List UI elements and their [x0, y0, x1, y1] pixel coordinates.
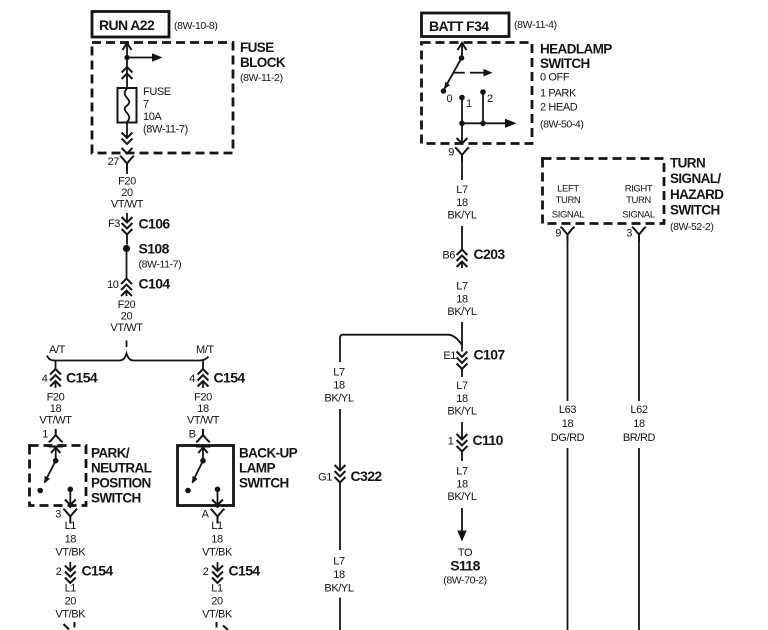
svg-text:L7: L7: [456, 281, 468, 293]
connector C154 pin 4 (A/T): [42, 369, 98, 388]
svg-text:18: 18: [456, 197, 468, 209]
fuse block dashed enclosure: [92, 43, 233, 154]
wire below C322: [339, 483, 341, 551]
svg-text:C203: C203: [474, 246, 506, 262]
svg-text:SWITCH: SWITCH: [540, 56, 590, 71]
svg-text:RUN A22: RUN A22: [99, 17, 155, 33]
svg-text:TURN: TURN: [626, 195, 651, 206]
wire label F20 20 VT/WT: [111, 171, 144, 211]
wire fuse to pin 27 with chevrons: [122, 123, 133, 154]
wire C106 to S108: [126, 235, 128, 245]
svg-text:L1: L1: [211, 520, 223, 532]
svg-text:2: 2: [56, 566, 62, 578]
svg-text:1: 1: [448, 436, 454, 448]
svg-text:9: 9: [555, 228, 561, 240]
svg-text:18: 18: [333, 569, 345, 581]
pin A: [202, 509, 225, 524]
svg-text:(8W-11-7): (8W-11-7): [139, 259, 182, 271]
svg-text:BK/YL: BK/YL: [447, 306, 476, 318]
wire RUN A22 to fuse (up arrow): [123, 43, 132, 88]
svg-text:BK/YL: BK/YL: [447, 491, 476, 503]
pin 27: [108, 156, 134, 171]
reference (8W-11-4): [514, 19, 557, 31]
wire label L7 18 BK/YL (below C110): [447, 452, 476, 504]
headlamp switch title: [540, 42, 612, 131]
svg-text:4: 4: [189, 373, 195, 385]
svg-text:10: 10: [107, 279, 119, 291]
svg-text:BK/YL: BK/YL: [324, 583, 353, 595]
wire label L1 20 VT/BK (M/T): [202, 583, 233, 621]
connector C104 pin 10: [107, 276, 170, 297]
svg-text:C154: C154: [66, 370, 98, 386]
connector C203 pin B6: [442, 226, 505, 268]
connector chevrons above fuse: [122, 67, 133, 79]
wire branch arrow right in fuse block: [127, 53, 163, 62]
headlamp contact 2: [480, 89, 493, 105]
pin 3 right turn signal: [626, 227, 646, 242]
node A/T: [49, 344, 66, 356]
node BATT F34 feed box: [422, 13, 510, 37]
svg-text:RIGHT: RIGHT: [625, 184, 653, 195]
svg-text:L7: L7: [333, 556, 345, 568]
svg-text:F20: F20: [118, 299, 136, 311]
junction dot in fuse block: [124, 55, 129, 60]
svg-text:4: 4: [42, 373, 48, 385]
svg-text:0 OFF: 0 OFF: [540, 72, 570, 84]
wire label L7 18 BK/YL (below C107): [447, 369, 476, 418]
pin 9: [448, 147, 469, 163]
wire label L1 20 VT/BK (A/T): [55, 583, 86, 621]
svg-text:L7: L7: [456, 380, 468, 392]
svg-text:L63: L63: [559, 404, 576, 416]
turn signal / hazard switch dashed box: [543, 159, 665, 224]
headlamp output wires: [459, 92, 486, 126]
svg-text:S118: S118: [450, 558, 480, 574]
svg-text:VT/WT: VT/WT: [111, 199, 144, 211]
wire left turn signal to page bottom: [567, 448, 569, 630]
svg-text:VT/BK: VT/BK: [55, 609, 86, 621]
svg-text:18: 18: [211, 534, 223, 546]
wire label L1 18 VT/BK (M/T): [202, 520, 233, 559]
svg-text:B: B: [189, 429, 196, 441]
svg-text:TURN: TURN: [556, 195, 581, 206]
wire label L7 18 BK/YL (switch output): [447, 162, 476, 222]
park/neutral switch title: [91, 446, 152, 506]
pin B back-up lamp switch: [189, 429, 210, 443]
svg-text:20: 20: [211, 596, 223, 608]
svg-text:LEFT: LEFT: [557, 184, 579, 195]
splice S108: [123, 241, 181, 271]
wire arrow to S118: [457, 508, 466, 542]
fuse F7 10A: [118, 88, 137, 123]
svg-text:G1: G1: [318, 472, 332, 484]
wire label L7 18 BK/YL (below C322): [324, 556, 353, 595]
svg-text:VT/BK: VT/BK: [55, 547, 86, 559]
svg-text:F3: F3: [108, 218, 120, 230]
svg-text:C104: C104: [139, 276, 171, 292]
svg-text:27: 27: [108, 156, 120, 168]
continuation symbol bottom (A/T): [64, 622, 75, 630]
svg-text:18: 18: [50, 403, 62, 415]
svg-text:L1: L1: [65, 520, 77, 532]
headlamp switch wiper arm: [444, 43, 467, 89]
wire right turn signal to page bottom: [638, 448, 640, 630]
wire to C107 with branch: [340, 322, 462, 362]
svg-text:VT/BK: VT/BK: [202, 609, 233, 621]
svg-text:VT/WT: VT/WT: [187, 415, 220, 427]
svg-text:C154: C154: [82, 563, 114, 579]
wire to page bottom (C322 branch): [339, 598, 341, 630]
park/neutral switch internals: [37, 447, 75, 509]
svg-text:1: 1: [466, 98, 472, 110]
svg-text:20: 20: [121, 311, 133, 323]
svg-text:M/T: M/T: [196, 344, 214, 356]
wire label F20 20 VT/WT: [110, 299, 143, 334]
svg-text:FUSE: FUSE: [143, 86, 171, 98]
svg-text:TURN: TURN: [670, 156, 705, 171]
svg-text:BLOCK: BLOCK: [240, 55, 286, 70]
svg-text:20: 20: [121, 187, 133, 199]
svg-text:SWITCH: SWITCH: [91, 491, 141, 506]
svg-text:C154: C154: [229, 563, 261, 579]
pin 1 park/neutral switch: [42, 429, 62, 443]
pin 9 left turn signal: [555, 227, 574, 242]
svg-text:C107: C107: [474, 347, 506, 363]
svg-text:HAZARD: HAZARD: [670, 187, 724, 202]
svg-text:VT/WT: VT/WT: [110, 322, 143, 334]
svg-text:(8W-70-2): (8W-70-2): [443, 575, 486, 587]
connector C107 pin E1: [443, 347, 505, 370]
connector C154 pin 4 (M/T): [189, 369, 245, 388]
headlamp output arrow right: [483, 119, 517, 128]
svg-text:(8W-52-2): (8W-52-2): [670, 221, 713, 233]
park/neutral position switch dashed box: [30, 446, 87, 506]
svg-text:VT/BK: VT/BK: [202, 547, 233, 559]
svg-text:SIGNAL/: SIGNAL/: [670, 171, 721, 186]
svg-text:C154: C154: [214, 370, 246, 386]
wire label F20 18 VT/WT (A/T): [39, 392, 72, 427]
node TO S118: [443, 547, 486, 587]
headlamp switch rotate arrow: [470, 69, 493, 77]
svg-text:F20: F20: [47, 392, 65, 404]
fuse value label: [143, 86, 188, 136]
svg-text:L7: L7: [333, 367, 345, 379]
svg-text:SIGNAL: SIGNAL: [552, 210, 585, 221]
svg-text:9: 9: [448, 147, 454, 159]
pin 3: [55, 509, 77, 524]
wire left branch to C322: [339, 409, 341, 471]
svg-text:C322: C322: [351, 468, 383, 484]
svg-text:18: 18: [333, 380, 345, 392]
svg-text:2: 2: [203, 566, 209, 578]
svg-text:LAMP: LAMP: [239, 461, 275, 476]
svg-text:POSITION: POSITION: [91, 476, 151, 491]
svg-text:1: 1: [42, 429, 48, 441]
svg-text:(8W-11-7): (8W-11-7): [143, 124, 188, 136]
svg-text:S108: S108: [139, 241, 170, 257]
svg-text:18: 18: [456, 479, 468, 491]
svg-text:(8W-11-4): (8W-11-4): [514, 19, 557, 31]
svg-text:18: 18: [456, 294, 468, 306]
svg-text:B6: B6: [442, 250, 455, 262]
svg-text:L1: L1: [211, 583, 223, 595]
svg-text:C110: C110: [473, 432, 504, 448]
svg-text:20: 20: [65, 596, 77, 608]
wire label L62 18 BR/RD: [623, 404, 656, 444]
back-up lamp switch box: [178, 446, 234, 506]
turn signal / hazard switch title: [670, 156, 724, 234]
wire label L63 18 DG/RD: [551, 404, 585, 444]
svg-text:C106: C106: [139, 216, 171, 232]
wire label L7 18 BK/YL: [447, 281, 476, 319]
wire headlamp to pin 9: [457, 123, 468, 143]
svg-text:3: 3: [55, 509, 61, 521]
svg-text:A: A: [202, 509, 210, 521]
svg-text:DG/RD: DG/RD: [551, 432, 585, 444]
svg-text:10A: 10A: [143, 111, 162, 123]
svg-text:18: 18: [633, 418, 645, 430]
svg-text:HEADLAMP: HEADLAMP: [540, 42, 612, 57]
back-up lamp switch title: [239, 446, 298, 491]
svg-text:7: 7: [143, 99, 149, 111]
svg-text:0: 0: [447, 93, 453, 105]
wire branch label L7 18 BK/YL (left branch): [324, 367, 353, 405]
svg-text:BK/YL: BK/YL: [447, 210, 476, 222]
node M/T: [196, 344, 214, 356]
svg-text:VT/WT: VT/WT: [39, 415, 72, 427]
svg-text:(8W-50-4): (8W-50-4): [540, 119, 583, 131]
wire A/T branch: [55, 361, 57, 370]
connector C154 pin 2 (A/T): [56, 562, 114, 583]
connector C322 pin G1: [318, 465, 382, 484]
wire M/T branch: [202, 361, 204, 370]
svg-text:PARK/: PARK/: [91, 446, 130, 461]
wire right turn signal: [638, 242, 640, 402]
svg-text:L7: L7: [456, 184, 468, 196]
svg-text:3: 3: [626, 228, 632, 240]
svg-text:F20: F20: [194, 392, 212, 404]
continuation symbol bottom (M/T): [217, 622, 229, 630]
svg-text:SWITCH: SWITCH: [670, 203, 720, 218]
svg-text:NEUTRAL: NEUTRAL: [91, 461, 152, 476]
svg-text:BK/YL: BK/YL: [447, 406, 476, 418]
svg-text:18: 18: [65, 534, 77, 546]
wire split A/T M/T bracket: [47, 341, 209, 361]
svg-text:L1: L1: [65, 583, 77, 595]
node LEFT TURN SIGNAL: [552, 184, 585, 221]
connector C106 pin F3: [108, 213, 170, 235]
svg-text:(8W-11-2): (8W-11-2): [240, 72, 283, 84]
wire left turn signal: [567, 242, 569, 402]
wire label L1 18 VT/BK (A/T): [55, 520, 86, 559]
connector C154 pin 2 (M/T): [203, 562, 261, 583]
svg-text:2: 2: [487, 93, 493, 105]
svg-text:18: 18: [562, 418, 574, 430]
svg-text:BATT F34: BATT F34: [429, 18, 489, 34]
svg-text:A/T: A/T: [49, 344, 66, 356]
wire label F20 18 VT/WT (M/T): [187, 392, 220, 427]
svg-text:E1: E1: [443, 350, 456, 362]
svg-text:L62: L62: [630, 404, 647, 416]
back-up lamp switch internals: [185, 447, 223, 509]
headlamp contact 0: [441, 88, 453, 105]
svg-text:F20: F20: [118, 176, 136, 188]
svg-text:BK/YL: BK/YL: [324, 393, 353, 405]
reference (8W-10-8): [174, 20, 217, 32]
svg-text:18: 18: [456, 393, 468, 405]
svg-text:BACK-UP: BACK-UP: [239, 446, 298, 461]
svg-text:FUSE: FUSE: [240, 40, 274, 55]
wire S108 to C104: [126, 252, 128, 279]
connector C110 pin 1: [448, 422, 504, 452]
svg-text:(8W-10-8): (8W-10-8): [174, 20, 217, 32]
svg-text:SIGNAL: SIGNAL: [622, 210, 655, 221]
svg-text:1 PARK: 1 PARK: [540, 88, 577, 100]
fuse block title: [240, 40, 286, 84]
node RIGHT TURN SIGNAL: [622, 184, 655, 221]
headlamp contact 1: [459, 95, 472, 110]
node RUN A22 feed box: [92, 12, 169, 38]
svg-text:18: 18: [197, 403, 209, 415]
svg-text:BR/RD: BR/RD: [623, 432, 656, 444]
headlamp switch dashed box: [422, 43, 533, 144]
svg-text:L7: L7: [456, 466, 468, 478]
svg-text:2 HEAD: 2 HEAD: [540, 102, 578, 114]
svg-text:SWITCH: SWITCH: [239, 476, 289, 491]
